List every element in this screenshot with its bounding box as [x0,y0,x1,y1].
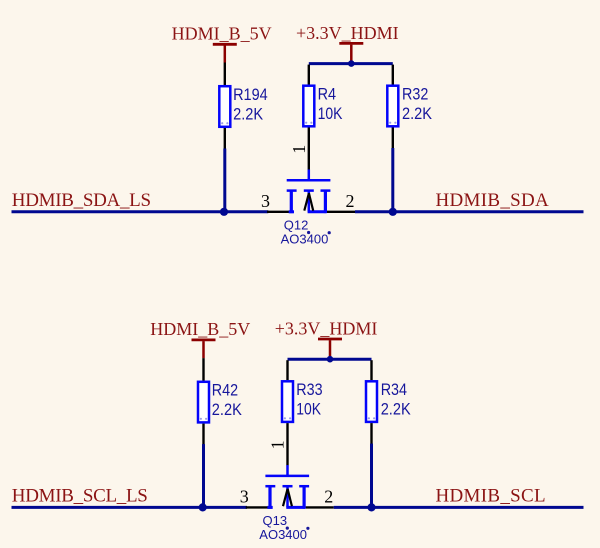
pin 1 of R194 [224,63,226,86]
wire +3.3V node horizontal [309,62,393,65]
wire net HDMIB_SDA [355,210,584,213]
dot after AO3400 of Q12 [328,231,331,234]
svg-text:HDMIB_SCL_LS: HDMIB_SCL_LS [12,485,148,506]
wire net HDMIB_SCL [334,506,584,509]
pin 1 of R33 [286,360,288,380]
pin 2 of Q12 [327,211,355,213]
svg-text:2.2K: 2.2K [402,104,433,123]
svg-text:2.2K: 2.2K [212,400,243,419]
svg-text:1: 1 [268,440,288,449]
svg-text:10K: 10K [318,104,343,123]
junction HDMIB_SDA at R32 [389,208,397,216]
svg-text:R42: R42 [212,381,238,400]
svg-text:HDMIB_SCL: HDMIB_SCL [436,485,546,506]
transistor Q12 AO3400 N-MOSFET symbol [287,170,331,214]
svg-text:Q13: Q13 [263,513,288,528]
resistor R4 body [303,86,314,127]
svg-text:R4: R4 [318,85,336,104]
svg-text:HDMI_B_5V: HDMI_B_5V [150,319,250,339]
dot after AO3400 of Q13 [306,527,309,530]
svg-text:3: 3 [240,487,249,507]
junction +3.3V node [327,356,334,363]
wire R42 to HDMIB_SCL_LS net [202,444,205,507]
pin 2 of R33 to gate pin 1 of Q13 [286,423,288,465]
power stub HDMI_B_5V [224,46,227,63]
svg-text:2: 2 [324,487,333,507]
junction HDMIB_SCL_LS at R42 [199,503,207,511]
svg-text:R194: R194 [233,85,268,104]
svg-text:2.2K: 2.2K [233,105,264,124]
pin 3 of Q13 [246,506,269,508]
wire net HDMIB_SCL_LS [12,506,248,509]
pin 2 of R42 [202,424,204,445]
pin 2 of R194 [224,128,226,149]
resistor R34 body [366,381,377,422]
resistor R33 body [282,381,293,422]
svg-text:+3.3V_HDMI: +3.3V_HDMI [275,318,378,338]
wire +3.3V node horizontal [288,358,372,361]
junction HDMIB_SCL at R34 [367,503,375,511]
svg-text:HDMIB_SDA_LS: HDMIB_SDA_LS [12,190,151,211]
svg-text:HDMI_B_5V: HDMI_B_5V [172,24,272,44]
svg-text:AO3400: AO3400 [259,527,307,542]
wire net HDMIB_SDA_LS [12,210,269,213]
pin 2 of R4 to gate pin 1 of Q12 [308,128,310,170]
svg-text:3: 3 [261,191,270,211]
svg-text:HDMIB_SDA: HDMIB_SDA [436,190,550,211]
pin 1 of R42 [202,358,204,381]
dot after Q12 designator [307,231,310,234]
dot after Q13 designator [286,527,289,530]
svg-text:R33: R33 [296,380,322,399]
pin 1 of R32 [392,65,394,85]
power stub +3.3V_HDMI [329,340,332,359]
svg-text:2: 2 [346,191,355,211]
junction +3.3V node [348,60,355,67]
svg-text:+3.3V_HDMI: +3.3V_HDMI [296,23,399,43]
svg-text:10K: 10K [296,400,321,419]
pin 2 of R32 [392,128,394,149]
svg-text:Q12: Q12 [284,218,309,233]
power stub HDMI_B_5V [202,341,205,358]
resistor R42 body [198,382,209,423]
pin 2 of Q13 [306,506,334,508]
pin 3 of Q12 [267,211,290,213]
resistor R194 body [219,86,230,127]
pin 1 of R4 [308,65,310,85]
wire R194 to HDMIB_SDA_LS net [223,149,226,212]
svg-text:1: 1 [289,145,309,154]
svg-text:2.2K: 2.2K [381,400,412,419]
pin 2 of R34 [370,423,372,444]
resistor R32 body [387,86,398,127]
power stub +3.3V_HDMI [350,45,353,64]
junction HDMIB_SDA_LS at R194 [220,208,228,216]
wire R32 to HDMIB_SDA net [391,148,394,212]
svg-text:R34: R34 [381,380,407,399]
transistor Q13 AO3400 N-MOSFET symbol [265,465,309,509]
wire R34 to HDMIB_SCL net [370,444,373,508]
svg-text:R32: R32 [402,85,428,104]
pin 1 of R34 [370,360,372,380]
svg-text:AO3400: AO3400 [281,232,329,247]
